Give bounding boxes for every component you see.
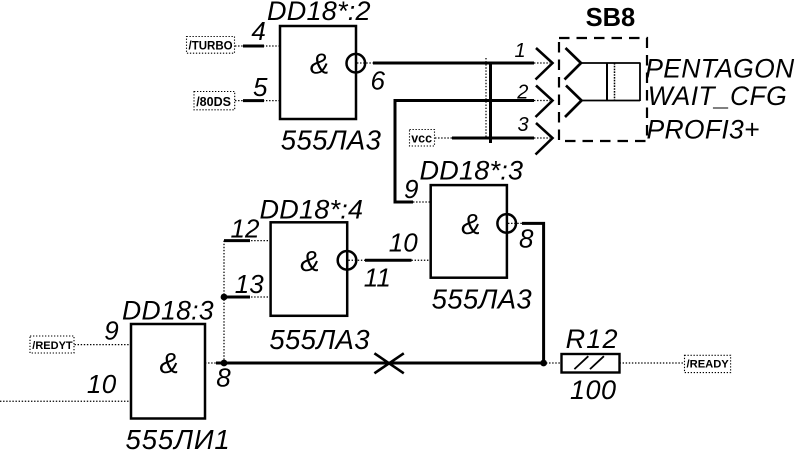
- wire 3 solid: [452, 137, 534, 140]
- wire 3 vcc stub dotted: [435, 137, 453, 139]
- jumper box right edge: [639, 63, 641, 102]
- svg-text:11: 11: [364, 262, 391, 292]
- svg-text:/READY: /READY: [687, 359, 730, 371]
- resistor R12 slash 1: [574, 356, 588, 369]
- wire 1 arrow stub dotted: [534, 62, 550, 64]
- wire pin10 stub dotted: [412, 259, 432, 261]
- svg-text:R12: R12: [566, 324, 619, 354]
- svg-text:10: 10: [87, 369, 117, 399]
- wire pin13 stub dotted: [248, 296, 271, 298]
- wire pin4 stub dotted: [235, 45, 280, 47]
- switch contact chevron row 1: [565, 48, 582, 80]
- wire 3 arrow stub dotted: [534, 137, 550, 139]
- switch contact chevron row 2: [565, 86, 582, 118]
- net label vcc: [410, 130, 435, 147]
- wire main bottom solid: [216, 362, 544, 365]
- gate DD18*:3 body: [431, 185, 507, 278]
- svg-text:/REDYT: /REDYT: [32, 340, 73, 352]
- svg-text:555ЛА3: 555ЛА3: [432, 284, 533, 315]
- svg-text:&: &: [310, 48, 329, 80]
- wire pin4 solid segment: [243, 45, 264, 48]
- junction node 13: [221, 294, 228, 301]
- svg-text:555ЛА3: 555ЛА3: [281, 124, 382, 155]
- wire R12 left stub dotted: [546, 362, 562, 364]
- cable marker solid vertical: [489, 62, 492, 144]
- net label /TURBO: [187, 37, 235, 54]
- net label /80DS: [194, 92, 235, 110]
- wire pin6 stub dotted: [357, 62, 375, 64]
- svg-text:WAIT_CFG: WAIT_CFG: [648, 81, 787, 111]
- jumper shunt solid vertical: [606, 63, 608, 101]
- wire pin13 solid segment: [224, 296, 250, 299]
- svg-text:1: 1: [515, 40, 526, 62]
- wire R12 to READY dotted: [620, 362, 684, 364]
- wire out8 li1 stub dotted: [205, 362, 218, 364]
- connector arrow pin 3: [536, 123, 553, 155]
- svg-text:5: 5: [253, 72, 268, 102]
- wire 2 arrow stub dotted: [534, 100, 550, 102]
- gate DD18*:4 body: [271, 222, 348, 315]
- wire 1 solid: [373, 62, 534, 65]
- gate DD18*:3 output bubble: [497, 214, 516, 233]
- svg-text:DD18*:3: DD18*:3: [420, 156, 524, 186]
- svg-text:12: 12: [231, 214, 260, 244]
- svg-text:100: 100: [570, 375, 617, 405]
- svg-text:DD18*:2: DD18*:2: [267, 0, 371, 26]
- svg-text:13: 13: [235, 269, 264, 299]
- connector arrow pin 2: [536, 86, 553, 118]
- gate DD18*:2 output bubble: [347, 54, 366, 73]
- svg-text:555ЛА3: 555ЛА3: [269, 324, 370, 355]
- svg-text:3: 3: [518, 114, 529, 136]
- wire out11 stub dotted: [349, 259, 367, 261]
- junction node 8 branch: [221, 360, 228, 367]
- svg-text:SB8: SB8: [586, 4, 636, 32]
- svg-text:/TURBO: /TURBO: [189, 41, 233, 53]
- cable marker dotted vertical: [485, 58, 487, 140]
- gate DD18:3 body: [131, 324, 205, 419]
- svg-text:&: &: [461, 209, 480, 241]
- wire pin5 solid segment: [243, 99, 264, 102]
- wire pin9 li1 dotted: [75, 344, 132, 346]
- svg-text:10: 10: [389, 228, 418, 258]
- wire vertical dotted branch: [223, 241, 225, 363]
- svg-text:&: &: [160, 348, 179, 380]
- svg-text:8: 8: [519, 223, 534, 253]
- svg-text:DD18:3: DD18:3: [122, 296, 214, 326]
- svg-text:4: 4: [251, 16, 265, 46]
- jumper box bottom dotted: [582, 100, 641, 102]
- svg-text:6: 6: [371, 66, 386, 96]
- svg-text:&: &: [300, 246, 319, 278]
- svg-text:9: 9: [404, 174, 418, 204]
- svg-text:9: 9: [104, 315, 118, 345]
- jumper shunt dotted vertical: [614, 63, 616, 101]
- resistor R12 slash 2: [590, 356, 604, 369]
- wire pin10 li1 dotted: [0, 400, 131, 402]
- resistor R12 body: [562, 354, 620, 373]
- wire pin12 stub dotted: [248, 240, 271, 242]
- svg-text:555ЛИ1: 555ЛИ1: [126, 424, 231, 451]
- svg-text:8: 8: [216, 362, 231, 392]
- svg-text:PROFI3+: PROFI3+: [647, 115, 760, 145]
- svg-text:DD18*:4: DD18*:4: [260, 194, 364, 224]
- junction node R12: [540, 360, 547, 367]
- crossing X mark: [374, 353, 403, 373]
- wire out8 solid to bottom: [522, 223, 544, 363]
- gate DD18*:4 output bubble: [338, 251, 357, 270]
- connector arrow pin 1: [536, 48, 553, 80]
- wire 10-11 solid: [365, 259, 412, 262]
- svg-text:PENTAGON: PENTAGON: [645, 53, 795, 83]
- wire out8 stub dotted: [508, 222, 523, 224]
- jumper box top dotted: [581, 62, 640, 64]
- net label /READY: [685, 355, 731, 372]
- gate DD18*:2 body: [280, 26, 356, 119]
- wire 2 pin9 stub dotted: [413, 201, 431, 203]
- net label /REDYT: [30, 336, 74, 353]
- wire pin5 stub dotted: [235, 100, 280, 102]
- wire 2 solid: [395, 101, 534, 203]
- svg-text:/80DS: /80DS: [196, 95, 231, 109]
- svg-text:2: 2: [516, 81, 528, 103]
- wire pin12 solid segment: [224, 239, 250, 242]
- svg-text:vcc: vcc: [411, 131, 432, 145]
- switch SB8 dashed box: [559, 38, 647, 141]
